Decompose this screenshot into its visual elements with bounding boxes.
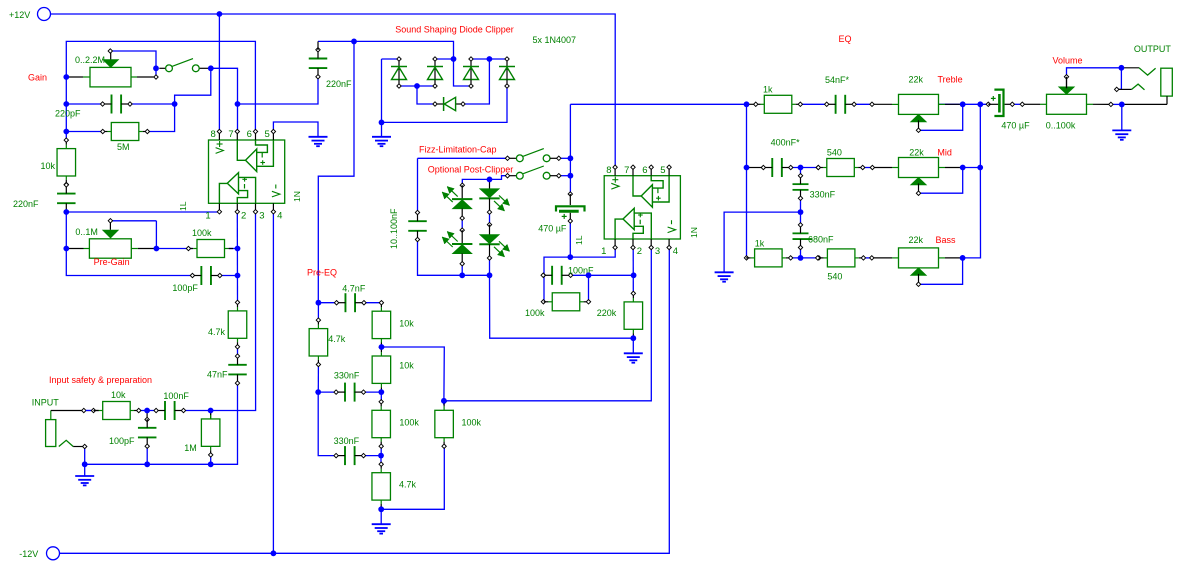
svg-text:680nF: 680nF [808, 235, 834, 245]
svg-text:1N: 1N [689, 227, 699, 238]
svg-text:10k: 10k [41, 161, 56, 171]
svg-text:Fizz-Limitation-Cap: Fizz-Limitation-Cap [419, 145, 497, 155]
svg-text:7: 7 [228, 129, 233, 140]
svg-text:6: 6 [642, 165, 647, 176]
svg-text:5: 5 [265, 129, 270, 140]
svg-text:4: 4 [277, 210, 282, 221]
svg-text:8: 8 [606, 165, 611, 176]
svg-text:Bass: Bass [936, 235, 957, 245]
svg-text:4.7k: 4.7k [208, 327, 226, 337]
svg-text:1k: 1k [755, 238, 765, 248]
svg-text:EQ: EQ [839, 34, 852, 44]
svg-text:47nF: 47nF [207, 370, 228, 380]
svg-text:5x 1N4007: 5x 1N4007 [533, 35, 577, 45]
svg-text:4.7k: 4.7k [328, 334, 346, 344]
svg-text:0..100k: 0..100k [1046, 120, 1076, 130]
svg-text:3: 3 [259, 210, 264, 221]
svg-text:220pF: 220pF [55, 109, 81, 119]
svg-text:Pre-EQ: Pre-EQ [307, 267, 337, 277]
svg-text:5: 5 [660, 165, 665, 176]
svg-text:Sound Shaping Diode Clipper: Sound Shaping Diode Clipper [395, 25, 514, 35]
svg-text:INPUT: INPUT [32, 398, 60, 408]
svg-text:22k: 22k [909, 147, 924, 157]
svg-text:Optional Post-Clipper: Optional Post-Clipper [428, 164, 514, 174]
svg-text:-12V: -12V [19, 549, 38, 559]
svg-text:1k: 1k [763, 85, 773, 95]
svg-text:220nF: 220nF [326, 79, 352, 89]
svg-text:330nF: 330nF [334, 436, 360, 446]
svg-text:220nF: 220nF [13, 199, 39, 209]
svg-text:100pF: 100pF [172, 283, 198, 293]
svg-text:1L: 1L [178, 201, 188, 211]
svg-text:4: 4 [673, 246, 678, 257]
svg-text:6: 6 [247, 129, 252, 140]
svg-text:Input safety & preparation: Input safety & preparation [49, 375, 152, 385]
svg-text:220k: 220k [597, 308, 617, 318]
svg-text:OUTPUT: OUTPUT [1134, 44, 1172, 54]
svg-text:2: 2 [637, 246, 642, 257]
svg-text:54nF*: 54nF* [825, 75, 850, 85]
svg-text:100k: 100k [462, 417, 482, 427]
svg-text:100nF: 100nF [163, 391, 189, 401]
svg-text:7: 7 [624, 165, 629, 176]
svg-text:330nF: 330nF [810, 190, 836, 200]
svg-text:Volume: Volume [1053, 56, 1083, 66]
svg-text:4.7nF: 4.7nF [342, 283, 366, 293]
svg-text:22k: 22k [909, 235, 924, 245]
svg-text:10..100nF: 10..100nF [389, 208, 399, 249]
svg-text:0..2.2M: 0..2.2M [75, 55, 105, 65]
svg-text:3: 3 [655, 246, 660, 257]
svg-text:10k: 10k [399, 361, 414, 371]
svg-text:1M: 1M [184, 443, 197, 453]
svg-text:8: 8 [211, 129, 216, 140]
svg-text:1N: 1N [292, 191, 302, 202]
svg-text:100k: 100k [192, 228, 212, 238]
svg-text:10k: 10k [111, 390, 126, 400]
svg-text:Treble: Treble [938, 75, 963, 85]
svg-text:1L: 1L [574, 235, 584, 245]
svg-text:4.7k: 4.7k [399, 480, 417, 490]
svg-text:540: 540 [827, 147, 842, 157]
svg-text:Pre-Gain: Pre-Gain [94, 257, 130, 267]
svg-text:470 µF: 470 µF [538, 224, 567, 234]
svg-text:Gain: Gain [28, 72, 47, 82]
svg-text:10k: 10k [399, 319, 414, 329]
svg-text:Mid: Mid [937, 147, 952, 157]
svg-text:330nF: 330nF [334, 370, 360, 380]
svg-text:22k: 22k [909, 75, 924, 85]
svg-text:0..1M: 0..1M [75, 227, 98, 237]
svg-text:2: 2 [241, 210, 246, 221]
svg-text:100k: 100k [399, 417, 419, 427]
svg-text:1: 1 [601, 246, 606, 257]
svg-text:400nF*: 400nF* [771, 138, 801, 148]
svg-text:5M: 5M [117, 142, 130, 152]
svg-text:470 µF: 470 µF [1001, 120, 1030, 130]
svg-text:540: 540 [827, 272, 842, 282]
svg-text:100pF: 100pF [109, 436, 135, 446]
svg-text:1: 1 [205, 210, 210, 221]
svg-text:+12V: +12V [9, 10, 30, 20]
svg-text:100k: 100k [525, 308, 545, 318]
